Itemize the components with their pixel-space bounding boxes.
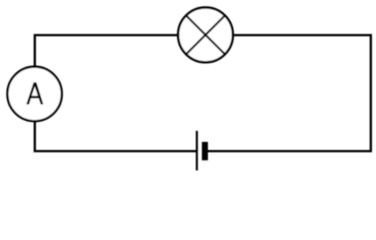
battery cell B1: short thick plate <box>202 142 208 160</box>
lamp L1: circle <box>178 8 233 63</box>
ammeter A1: circle <box>7 67 61 121</box>
wire: top-right segment, right vertical, bottom-right segment (to battery - plate) <box>207 35 370 151</box>
battery cell B1: long thin plate <box>196 131 198 171</box>
ammeter A1: letter A <box>26 82 43 104</box>
lamp L1: cross diagonal 1 <box>186 16 225 55</box>
lamp L1: cross diagonal 2 <box>186 16 225 55</box>
wire: top-left segment, left vertical, bottom-left segment (to battery + plate) <box>35 35 197 151</box>
